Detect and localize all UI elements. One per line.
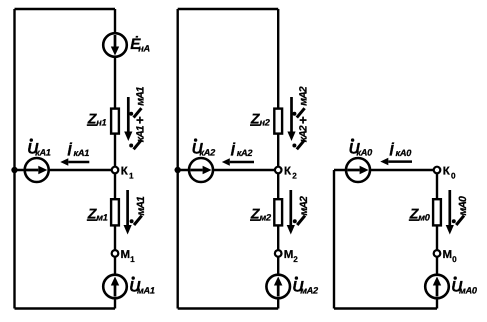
svg-text:İ: İ — [231, 142, 236, 159]
svg-text:К: К — [443, 166, 451, 178]
svg-text:К: К — [121, 166, 129, 178]
svg-text:1: 1 — [130, 255, 135, 264]
svg-text:кА0: кА0 — [356, 148, 373, 158]
svg-text:К: К — [284, 166, 292, 178]
svg-text:2: 2 — [293, 255, 298, 264]
svg-text:м2: м2 — [260, 213, 272, 223]
svg-text:мА0: мА0 — [459, 286, 478, 296]
svg-text:İ: İ — [67, 142, 72, 159]
svg-text:0: 0 — [451, 171, 456, 180]
svg-text:кА1: кА1 — [74, 148, 90, 158]
svg-text:мА1: мА1 — [135, 196, 147, 216]
svg-text:н2: н2 — [260, 118, 271, 128]
svg-text:кА2: кА2 — [199, 148, 216, 158]
svg-text:1: 1 — [129, 171, 134, 180]
svg-text:мА2: мА2 — [298, 86, 310, 106]
svg-text:мА2: мА2 — [298, 196, 310, 216]
svg-text:кА0: кА0 — [396, 148, 413, 158]
svg-text:кА1: кА1 — [135, 125, 147, 142]
svg-text:нА: нА — [138, 44, 150, 54]
svg-text:мА0: мА0 — [457, 196, 469, 216]
svg-text:М: М — [121, 249, 131, 261]
svg-text:2: 2 — [292, 171, 297, 180]
svg-text:М: М — [443, 249, 453, 261]
svg-text:М: М — [284, 249, 294, 261]
svg-text:İ: İ — [389, 142, 394, 159]
svg-text:мА1: мА1 — [135, 86, 147, 106]
svg-text:мА2: мА2 — [300, 286, 319, 296]
svg-text:м1: м1 — [96, 213, 107, 223]
svg-text:0: 0 — [452, 255, 457, 264]
svg-text:н1: н1 — [96, 118, 106, 128]
svg-text:кА1: кА1 — [35, 148, 51, 158]
svg-text:кА2: кА2 — [298, 125, 310, 142]
svg-text:м0: м0 — [418, 213, 430, 223]
svg-text:кА2: кА2 — [237, 148, 254, 158]
svg-text:мА1: мА1 — [137, 286, 155, 296]
